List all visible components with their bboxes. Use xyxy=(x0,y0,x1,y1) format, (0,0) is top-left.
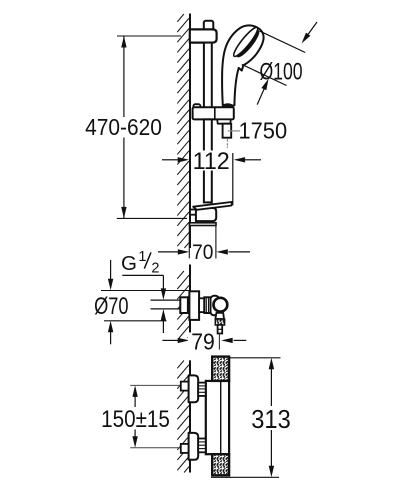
svg-text:1750: 1750 xyxy=(239,118,288,144)
svg-text:79: 79 xyxy=(191,328,215,354)
svg-text:1: 1 xyxy=(138,249,146,265)
svg-text:Ø70: Ø70 xyxy=(94,293,129,320)
svg-text:Ø100: Ø100 xyxy=(259,57,302,85)
svg-text:313: 313 xyxy=(251,406,290,434)
svg-text:112: 112 xyxy=(193,149,230,175)
svg-text:G: G xyxy=(121,252,137,275)
svg-text:70: 70 xyxy=(192,241,213,264)
svg-text:150±15: 150±15 xyxy=(101,406,170,433)
svg-text:2: 2 xyxy=(151,261,159,277)
svg-text:470-620: 470-620 xyxy=(85,114,162,140)
